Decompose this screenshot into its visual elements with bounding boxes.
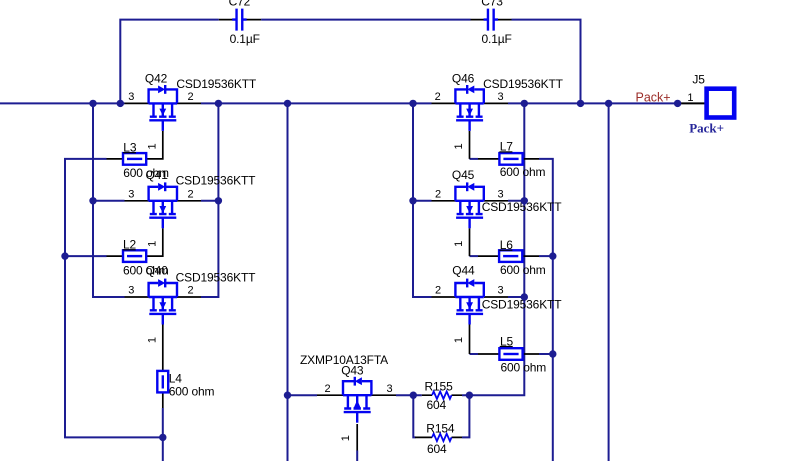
svg-text:1: 1 [453, 143, 465, 149]
wire L4 bottom to edge [162, 408, 164, 461]
wire Q43 pin3 net [396, 394, 413, 396]
svg-text:600 ohm: 600 ohm [500, 165, 546, 179]
svg-text:3: 3 [128, 91, 134, 103]
resistor R155 [422, 379, 462, 412]
junction at x=608 rail / main rail [605, 100, 612, 107]
junction at x=413 rail / main rail [409, 100, 416, 107]
svg-text:600 ohm: 600 ohm [169, 385, 215, 399]
svg-text:604: 604 [427, 442, 447, 456]
svg-text:CSD19536KTT: CSD19536KTT [176, 77, 257, 91]
svg-text:CSD19536KTT: CSD19536KTT [176, 174, 257, 188]
transistor Q43 [300, 353, 396, 451]
svg-text:1: 1 [146, 241, 158, 247]
wire x=218 rail [201, 103, 218, 297]
wire L6 gate link [470, 255, 479, 257]
svg-text:CSD19536KTT: CSD19536KTT [176, 270, 257, 284]
svg-text:0.1µF: 0.1µF [230, 32, 260, 46]
wire x=287 rail [287, 103, 289, 461]
wire x=608 rail [608, 103, 610, 461]
svg-text:CSD19536KTT: CSD19536KTT [483, 77, 564, 91]
wire Q45 row left [413, 200, 432, 202]
capacitor C73 [471, 0, 512, 46]
svg-text:2: 2 [188, 91, 194, 103]
svg-text:2: 2 [435, 188, 441, 200]
svg-text:1: 1 [687, 92, 693, 104]
svg-text:600 ohm: 600 ohm [501, 360, 547, 374]
junction R155 right [466, 392, 473, 399]
transistor Q41 [125, 168, 257, 256]
transistor Q46 [432, 71, 564, 158]
junction Q41 pin 2 [215, 197, 222, 204]
transistor Q42 [125, 71, 257, 158]
svg-text:600 ohm: 600 ohm [123, 264, 169, 278]
svg-text:C72: C72 [229, 0, 251, 9]
junction at x=218 rail / main rail [215, 100, 222, 107]
svg-text:R154: R154 [426, 422, 455, 436]
junction at left rail / main rail [89, 100, 96, 107]
svg-text:1: 1 [453, 241, 465, 247]
inductor L2 [107, 238, 169, 278]
svg-text:2: 2 [435, 285, 441, 297]
wire L7 gate link [470, 158, 479, 160]
inductor L3 [107, 141, 170, 181]
wire left rail x=93 [93, 103, 125, 297]
wire L6 right [539, 255, 553, 257]
svg-text:L4: L4 [169, 371, 183, 385]
svg-text:Q42: Q42 [145, 71, 168, 85]
svg-text:1: 1 [340, 435, 352, 441]
resistor R154 [415, 422, 462, 457]
wire R154 loop [413, 395, 469, 437]
junction Q45 pin 2 [409, 197, 416, 204]
svg-text:1: 1 [146, 337, 158, 343]
svg-text:600 ohm: 600 ohm [500, 263, 546, 277]
svg-text:2: 2 [188, 285, 194, 297]
junction L5 right / x=553 rail [549, 350, 556, 357]
wire L5 gate link [470, 353, 479, 355]
svg-text:604: 604 [427, 398, 447, 412]
transistor Q40 [125, 264, 257, 371]
wire Q45 pin3 net [508, 200, 524, 202]
svg-text:Pack+: Pack+ [689, 121, 724, 136]
wire Q43 gate bottom [356, 451, 358, 461]
svg-text:Q43: Q43 [341, 363, 364, 377]
wire x=65 rail L3 to bottom [65, 159, 163, 438]
svg-text:2: 2 [435, 91, 441, 103]
svg-text:2: 2 [324, 383, 330, 395]
svg-text:R155: R155 [425, 379, 454, 393]
junction Q41 pin 3 [89, 197, 96, 204]
svg-text:3: 3 [128, 188, 134, 200]
svg-text:Pack+: Pack+ [636, 91, 671, 105]
wire Q41 row right [201, 200, 218, 202]
junction Q43 pin 3 / R155 left [410, 392, 417, 399]
wire main rail y=103.4 [0, 102, 678, 104]
wire Q44 pin3 net [508, 296, 524, 298]
inductor L7 [478, 140, 546, 179]
wire Q43 pin2 net [288, 394, 318, 396]
svg-text:0.1µF: 0.1µF [482, 32, 512, 46]
svg-text:3: 3 [386, 383, 392, 395]
junction at x=287 rail / main rail [284, 100, 291, 107]
wire L2 left [65, 255, 107, 257]
svg-text:3: 3 [497, 91, 503, 103]
connector J5 [678, 73, 735, 118]
transistor Q44 [432, 263, 563, 354]
junction L2 left / x=65 rail [61, 252, 68, 259]
svg-text:2: 2 [188, 188, 194, 200]
wire top bypass loop [120, 20, 580, 104]
junction at J5 pin / main rail [674, 100, 681, 107]
svg-text:Q44: Q44 [452, 263, 475, 277]
svg-text:J5: J5 [692, 73, 705, 87]
inductor L4 vertical [157, 371, 214, 408]
junction below L4 [159, 434, 166, 441]
inductor L5 [478, 334, 546, 374]
junction at C72 riser / main rail [117, 100, 124, 107]
svg-text:3: 3 [497, 188, 503, 200]
transistor Q45 [432, 168, 563, 256]
capacitor C72 [219, 0, 261, 46]
wire Q41 row left [93, 200, 125, 202]
inductor L6 [478, 238, 546, 277]
junction Q45 pin 3 [521, 197, 528, 204]
junction at x=524 rail / main rail [521, 100, 528, 107]
svg-text:C73: C73 [481, 0, 503, 9]
wire R155 row and x=524 rail [413, 103, 524, 395]
junction L6 right / x=553 rail [549, 252, 556, 259]
svg-text:3: 3 [128, 285, 134, 297]
svg-text:Q45: Q45 [452, 168, 475, 182]
junction at C73 riser / main rail [577, 100, 584, 107]
wire L7 right to x=553 rail [539, 159, 553, 461]
svg-text:1: 1 [453, 337, 465, 343]
svg-text:600 ohm: 600 ohm [123, 166, 169, 180]
svg-text:3: 3 [497, 285, 503, 297]
junction Q44 pin 3 [521, 293, 528, 300]
junction Q43 pin 2 / x=287 rail [284, 392, 291, 399]
wire L5 right [539, 353, 553, 355]
svg-text:1: 1 [146, 143, 158, 149]
wire x=413 rail [413, 103, 432, 297]
svg-text:Q46: Q46 [452, 71, 475, 85]
